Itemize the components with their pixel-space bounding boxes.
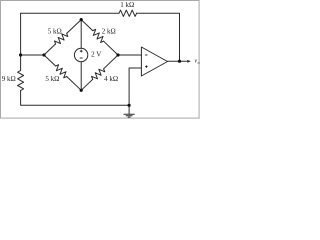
svg-text:2 V: 2 V	[91, 50, 101, 58]
svg-text:4 kΩ: 4 kΩ	[104, 75, 118, 83]
svg-text:2 kΩ: 2 kΩ	[102, 28, 116, 36]
svg-text:5 kΩ: 5 kΩ	[45, 75, 59, 83]
svg-text:o: o	[198, 60, 201, 65]
svg-text:5 kΩ: 5 kΩ	[48, 28, 62, 36]
svg-text:1 kΩ: 1 kΩ	[120, 1, 134, 9]
svg-text:9 kΩ: 9 kΩ	[2, 75, 16, 83]
